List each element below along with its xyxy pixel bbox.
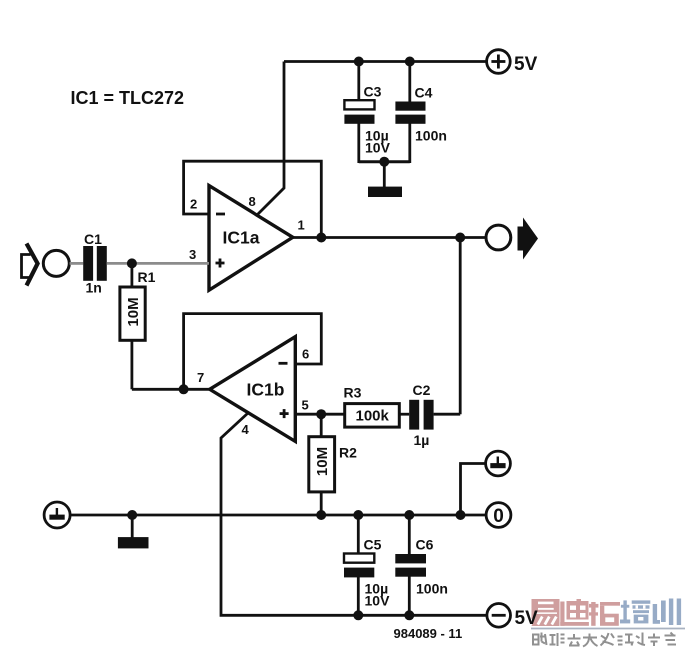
node at C3/C4 join <box>379 157 389 167</box>
wire +5V rail <box>284 60 487 63</box>
svg-text:1µ: 1µ <box>414 432 430 448</box>
terminal 0 output <box>486 503 511 528</box>
terminal chassis ground left <box>44 502 70 528</box>
node -5V rail at C6 <box>404 610 414 620</box>
capacitor C5 (electrolytic) <box>344 554 374 578</box>
svg-text:5V: 5V <box>515 608 539 629</box>
svg-text:8: 8 <box>249 194 256 209</box>
svg-text:C6: C6 <box>416 537 434 553</box>
wire pin 5 <box>295 413 344 416</box>
wire R1 top lead <box>130 263 133 288</box>
node on +5V rail at C4 <box>405 57 415 67</box>
capacitor C6 <box>395 554 426 577</box>
wire C4 leads <box>408 62 411 103</box>
node output to C2 branch <box>455 233 465 243</box>
capacitor C4 <box>395 102 425 124</box>
svg-text:IC1b: IC1b <box>247 380 285 400</box>
svg-text:100n: 100n <box>415 128 447 144</box>
svg-text:10M: 10M <box>125 297 142 326</box>
svg-text:C2: C2 <box>413 382 431 398</box>
svg-text:IC1a: IC1a <box>223 228 260 248</box>
wire IC1b feedback loop <box>184 314 322 390</box>
node -5V rail at C5 <box>353 610 363 620</box>
terminal chassis ground right <box>486 451 511 476</box>
svg-text:100k: 100k <box>356 408 390 425</box>
terminal -5V supply <box>487 604 511 628</box>
svg-text:C3: C3 <box>364 84 382 100</box>
svg-text:10V: 10V <box>365 593 391 609</box>
svg-text:R2: R2 <box>339 445 357 461</box>
wire pin 4 to -5V rail <box>221 413 487 615</box>
svg-text:5V: 5V <box>514 54 538 75</box>
ground under 0V rail <box>118 537 149 548</box>
svg-text:4: 4 <box>242 422 250 437</box>
wire vertical to pin 8 <box>257 62 285 216</box>
svg-text:1: 1 <box>298 218 305 233</box>
resistor R2 <box>309 437 335 492</box>
wire ground stub <box>383 162 386 188</box>
svg-text:7: 7 <box>197 370 204 385</box>
terminal input circle <box>43 250 69 276</box>
svg-text:R1: R1 <box>138 269 156 285</box>
wire chassis terminal branch <box>461 464 487 516</box>
wire IC1a output <box>293 236 486 239</box>
svg-text:1n: 1n <box>86 280 102 296</box>
node 0V at R1 ground <box>127 510 137 520</box>
resistor R1 <box>120 287 145 340</box>
wire pin 7 <box>132 388 210 391</box>
wire R3 to C2 <box>399 413 409 416</box>
node 0V at chassis branch <box>456 510 466 520</box>
wire C6 leads <box>408 515 411 555</box>
node output feedback junction <box>316 233 326 243</box>
node input junction at R1 <box>127 258 137 268</box>
svg-text:0: 0 <box>493 506 504 527</box>
output arrow symbol <box>518 218 539 260</box>
wire joining C3 C4 bottoms <box>359 160 410 163</box>
svg-text:6: 6 <box>302 347 309 362</box>
node 0V at C5 <box>353 510 363 520</box>
wire ground stub left <box>131 515 134 539</box>
wire vertical output to C2 <box>459 238 462 415</box>
watermark logo <box>531 598 685 650</box>
svg-text:10V: 10V <box>365 140 391 156</box>
wire C5 leads <box>357 515 360 555</box>
svg-text:10M: 10M <box>314 447 331 476</box>
resistor R3 <box>345 404 400 428</box>
svg-text:984089 - 11: 984089 - 11 <box>394 626 463 641</box>
terminal output circle <box>486 225 511 250</box>
svg-text:C1: C1 <box>84 231 102 247</box>
svg-text:5: 5 <box>302 398 309 413</box>
node pin 5 junction <box>316 409 326 419</box>
node 0V at R2 <box>316 510 326 520</box>
wire R1 bottom lead <box>130 340 133 389</box>
node on +5V rail at C3 <box>354 57 364 67</box>
input arrow symbol <box>22 244 38 286</box>
wire C1 to pin 3 (gray) <box>107 262 209 265</box>
wire C3 leads <box>357 62 360 102</box>
wire C2 to output branch <box>434 413 461 416</box>
op-amp IC1b <box>210 337 296 442</box>
terminal +5V supply <box>487 50 511 74</box>
wire 0V rail <box>70 514 486 517</box>
capacitor C1 <box>83 246 107 281</box>
ground under C3/C4 <box>368 187 402 197</box>
wire IC1a feedback loop <box>184 161 322 237</box>
op-amp IC1a <box>209 186 293 291</box>
svg-text:100n: 100n <box>416 581 448 597</box>
node 0V at C6 <box>404 510 414 520</box>
wire R2 top lead <box>320 414 323 437</box>
wire input to C1 (gray) <box>70 262 84 265</box>
svg-text:2: 2 <box>190 197 197 212</box>
svg-text:R3: R3 <box>344 385 362 401</box>
capacitor C2 <box>409 400 433 430</box>
svg-text:C4: C4 <box>415 85 433 101</box>
svg-text:3: 3 <box>189 247 196 262</box>
svg-text:C5: C5 <box>364 537 382 553</box>
wire R2 bottom lead <box>320 492 323 515</box>
svg-text:IC1 = TLC272: IC1 = TLC272 <box>71 88 185 108</box>
node pin 7 junction <box>179 384 189 394</box>
capacitor C3 (electrolytic) <box>344 100 374 124</box>
